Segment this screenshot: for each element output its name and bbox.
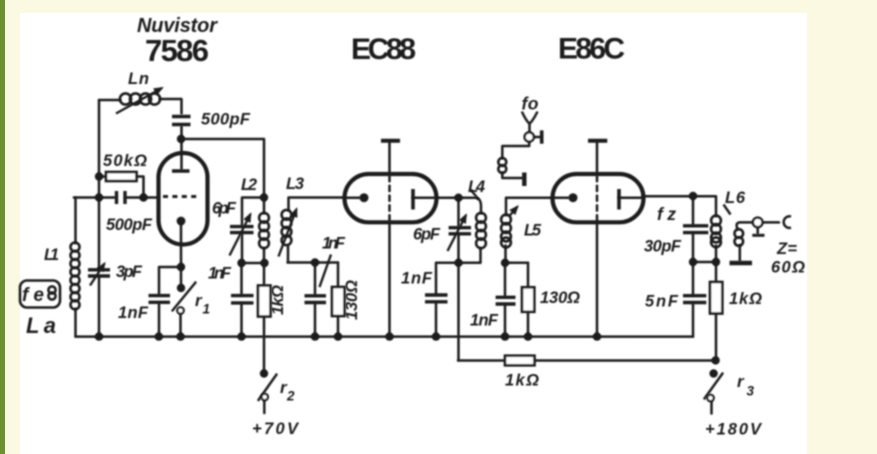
svg-text:L2: L2	[241, 176, 257, 194]
svg-text:130Ω: 130Ω	[343, 280, 361, 320]
svg-text:6pF: 6pF	[413, 226, 441, 244]
svg-text:7586: 7586	[145, 33, 209, 68]
svg-text:+180V: +180V	[705, 421, 763, 439]
svg-text:1nF: 1nF	[322, 235, 346, 253]
svg-text:1nF: 1nF	[401, 270, 433, 288]
svg-text:1nF: 1nF	[208, 265, 232, 283]
svg-text:Z=: Z=	[776, 240, 797, 258]
svg-text:E86C: E86C	[558, 33, 625, 66]
svg-text:L5: L5	[524, 222, 542, 240]
svg-text:L6: L6	[725, 189, 746, 207]
svg-text:fz: fz	[657, 204, 676, 224]
svg-text:1kΩ: 1kΩ	[505, 372, 539, 390]
svg-text:6pF: 6pF	[212, 200, 237, 218]
svg-text:La: La	[26, 313, 56, 338]
svg-text:50kΩ: 50kΩ	[103, 152, 147, 170]
svg-text:fo: fo	[522, 94, 539, 114]
svg-text:3pF: 3pF	[116, 263, 143, 281]
svg-text:+70V: +70V	[252, 420, 300, 438]
svg-text:L1: L1	[44, 246, 59, 264]
svg-text:1nF: 1nF	[118, 304, 149, 322]
svg-text:2: 2	[286, 389, 295, 404]
svg-text:1nF: 1nF	[470, 312, 499, 330]
svg-text:3: 3	[747, 384, 755, 399]
svg-text:500pF: 500pF	[106, 216, 153, 234]
svg-text:L3: L3	[286, 175, 304, 193]
svg-text:EC88: EC88	[351, 33, 416, 66]
svg-text:Ln: Ln	[128, 70, 149, 88]
svg-text:1: 1	[203, 302, 211, 317]
svg-text:5nF: 5nF	[645, 293, 679, 311]
svg-text:130Ω: 130Ω	[540, 289, 580, 307]
svg-text:1kΩ: 1kΩ	[269, 285, 287, 315]
svg-text:r: r	[737, 372, 745, 391]
svg-text:60Ω: 60Ω	[771, 259, 805, 277]
svg-text:fe: fe	[22, 285, 44, 306]
svg-text:500pF: 500pF	[201, 111, 251, 129]
svg-text:30pF: 30pF	[644, 238, 682, 256]
svg-text:L4: L4	[468, 178, 485, 196]
svg-text:1kΩ: 1kΩ	[729, 290, 762, 308]
